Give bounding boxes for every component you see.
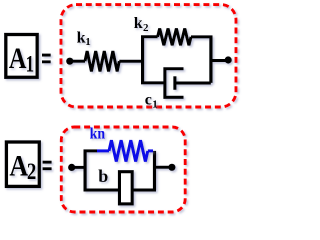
svg-text:1: 1 bbox=[85, 36, 91, 48]
svg-text:1: 1 bbox=[152, 98, 158, 110]
svg-text:A: A bbox=[9, 149, 28, 182]
svg-text:2: 2 bbox=[27, 159, 36, 184]
svg-text:kn: kn bbox=[90, 125, 106, 142]
svg-text:b: b bbox=[98, 166, 108, 186]
svg-text:c: c bbox=[145, 92, 152, 109]
svg-text:k: k bbox=[134, 15, 143, 32]
svg-text:A: A bbox=[9, 42, 27, 75]
svg-text:1: 1 bbox=[26, 51, 34, 76]
svg-text:2: 2 bbox=[143, 22, 149, 34]
